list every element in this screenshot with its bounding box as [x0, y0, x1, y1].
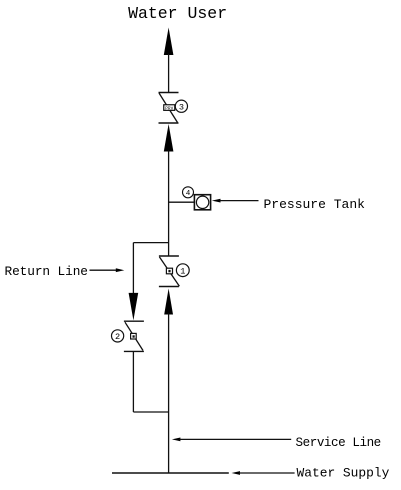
wire return line vertical lower — [132, 351, 134, 412]
svg-text:2: 2 — [115, 332, 120, 342]
valve V3 top tick — [159, 92, 179, 94]
svg-text:Service Line: Service Line — [296, 436, 381, 450]
valve V2 bottom tick — [124, 350, 144, 352]
wire main pipe lower — [168, 314, 170, 474]
valve V3 diagonal — [159, 93, 178, 123]
valve V2 top tick — [124, 320, 144, 322]
valve V1 body — [166, 268, 172, 274]
svg-text:3: 3 — [179, 102, 184, 112]
pressure tank circle — [196, 196, 208, 208]
wire arrow to valve 3 — [168, 54, 170, 93]
leader arrow water supply — [232, 471, 295, 475]
wire return line vertical upper — [132, 243, 134, 293]
valve V2 diagonal — [125, 322, 143, 350]
callout circle 3 — [175, 100, 187, 112]
valve V1 diagonal — [159, 257, 179, 286]
leader arrow pressure tank — [212, 199, 259, 203]
flow arrow down on return line — [129, 293, 139, 321]
leader arrow service line — [172, 438, 291, 442]
svg-text:Return Line: Return Line — [5, 264, 88, 279]
pressure tank square — [194, 195, 210, 210]
svg-text:Pressure Tank: Pressure Tank — [264, 197, 366, 212]
callout circle 4 — [183, 187, 194, 198]
wire tee to pressure tank — [169, 201, 195, 203]
flow arrow below valve 3 — [164, 124, 174, 152]
flow arrow to water user — [164, 28, 174, 56]
leader arrow return line — [90, 268, 125, 272]
svg-text:Water Supply: Water Supply — [297, 465, 390, 480]
callout circle 2 — [112, 330, 124, 342]
valve V3 bottom tick — [159, 122, 179, 124]
callout circle 1 — [176, 264, 189, 277]
valve V1 top tick — [159, 255, 179, 257]
wire tee to return line — [133, 242, 168, 244]
wire return line bottom horizontal — [133, 411, 168, 413]
valve V2 body — [131, 333, 137, 339]
wire water supply main — [112, 472, 229, 474]
svg-text:Water User: Water User — [128, 4, 227, 23]
valve V1 bottom tick — [159, 286, 179, 288]
svg-text:1: 1 — [180, 266, 185, 276]
svg-text:PRV: PRV — [165, 106, 173, 111]
svg-text:4: 4 — [186, 190, 191, 198]
flow arrow above service line — [164, 289, 173, 315]
wire main pipe middle — [168, 151, 170, 257]
valve V3 PRV body — [164, 105, 175, 112]
